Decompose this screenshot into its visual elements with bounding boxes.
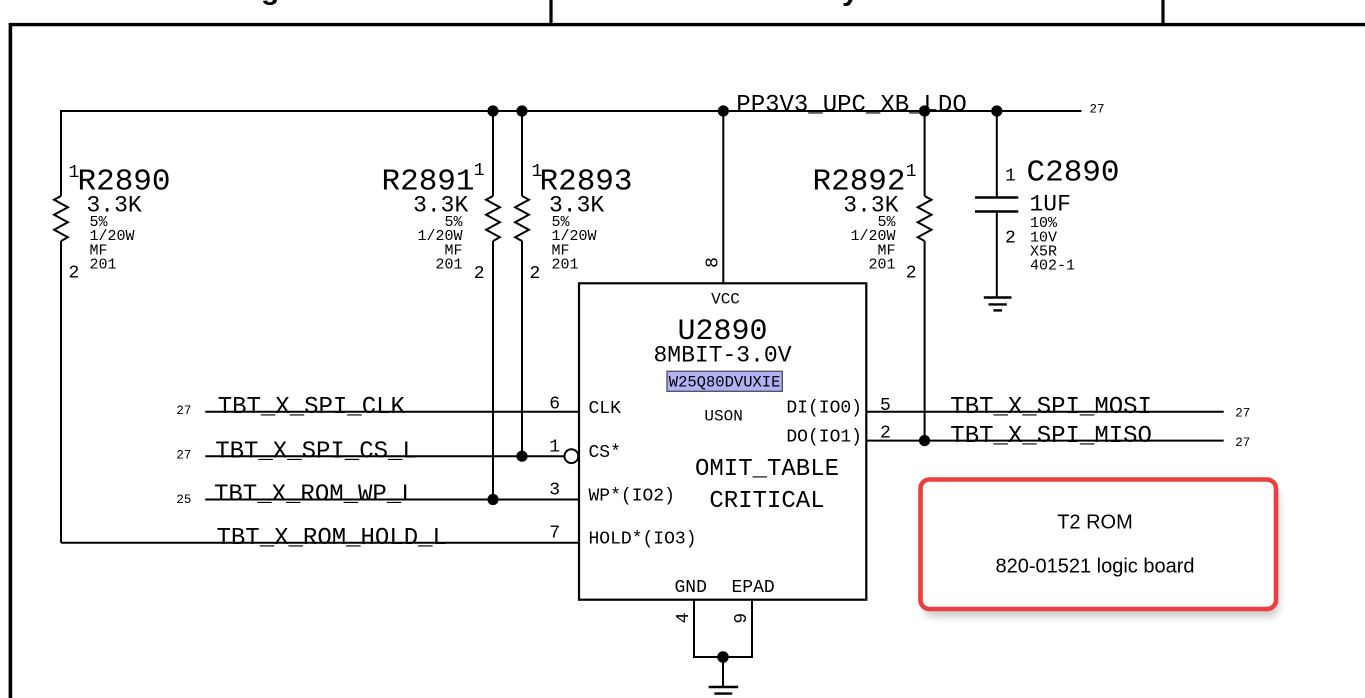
svg-text:CS*: CS*: [589, 443, 621, 463]
svg-text:HOLD*(IO3): HOLD*(IO3): [589, 530, 697, 550]
svg-text:1: 1: [549, 438, 560, 458]
node junction dot R2892/MISO: [919, 435, 930, 446]
wire to ground: [722, 657, 724, 686]
svg-text:TBT_X_SPI_MISO: TBT_X_SPI_MISO: [950, 423, 1152, 450]
sheet frame left border: [9, 23, 13, 698]
svg-text:CLK: CLK: [589, 399, 622, 419]
svg-text:2: 2: [474, 264, 485, 284]
svg-text:27: 27: [176, 404, 191, 418]
svg-text:7: 7: [549, 524, 560, 544]
wire TBT_X_SPI_MISO: [866, 440, 1223, 442]
svg-text:402-1: 402-1: [1030, 258, 1075, 275]
title block row divider (vertical, top strip left): [549, 0, 552, 25]
ground symbol (C2890): [984, 298, 1012, 311]
inversion bubble on CS* pin: [565, 449, 579, 463]
svg-text:2: 2: [530, 264, 541, 284]
resistor R2891: [381, 110, 499, 500]
node junction dot C2890/rail: [991, 105, 1002, 116]
svg-text:201: 201: [552, 257, 579, 274]
svg-text:y: y: [842, 0, 859, 7]
wire TBT_X_SPI_MOSI: [866, 411, 1223, 413]
sheet frame top border: [9, 23, 1365, 26]
svg-text:W25Q80DVUXIE: W25Q80DVUXIE: [669, 374, 781, 392]
svg-text:2: 2: [1005, 229, 1016, 249]
resistor R2892: [812, 110, 931, 441]
ground symbol (U2890): [709, 687, 739, 694]
svg-text:TBT_X_SPI_CS_L: TBT_X_SPI_CS_L: [215, 438, 417, 465]
svg-text:8MBIT-3.0V: 8MBIT-3.0V: [653, 343, 791, 369]
svg-text:2: 2: [906, 264, 917, 284]
svg-text:201: 201: [435, 257, 462, 274]
svg-text:PP3V3_UPC_XB_LDO: PP3V3_UPC_XB_LDO: [736, 92, 966, 119]
node junction dot R2893/rail: [516, 105, 527, 116]
svg-text:9: 9: [732, 613, 752, 624]
svg-text:5: 5: [880, 396, 891, 416]
annotation red box T2 ROM: [921, 480, 1280, 618]
svg-text:2: 2: [880, 424, 891, 444]
resistor R2890: [54, 110, 170, 543]
wire TBT_X_SPI_CS_L: [205, 455, 564, 457]
node junction dot VCC/rail: [718, 105, 729, 116]
wire GND pin 4: [693, 600, 695, 658]
svg-text:VCC: VCC: [711, 291, 740, 309]
svg-text:1: 1: [1005, 167, 1016, 187]
wire TBT_X_ROM_HOLD_L: [61, 542, 579, 544]
svg-text:8: 8: [703, 257, 723, 268]
svg-text:GND: GND: [675, 578, 707, 598]
wire GND-EPAD tie: [694, 656, 752, 658]
op IC body U2890: [579, 283, 866, 599]
svg-text:C2890: C2890: [1027, 156, 1120, 191]
svg-text:TBT_X_ROM_HOLD_L: TBT_X_ROM_HOLD_L: [217, 525, 447, 552]
resistor R2893: [515, 110, 632, 456]
node junction dot R2893/CS: [516, 451, 527, 462]
svg-text:820-01521 logic board: 820-01521 logic board: [995, 556, 1194, 578]
node junction dot R2892/rail: [919, 105, 930, 116]
svg-text:USON: USON: [704, 407, 742, 425]
svg-text:27: 27: [1235, 436, 1250, 450]
svg-text:OMIT_TABLE: OMIT_TABLE: [695, 456, 839, 483]
svg-text:25: 25: [176, 493, 191, 507]
svg-text:27: 27: [176, 448, 191, 462]
svg-text:DI(IO0): DI(IO0): [786, 399, 862, 419]
node junction dot R2891/rail: [487, 105, 498, 116]
svg-text:3: 3: [549, 481, 560, 501]
svg-text:TBT_X_SPI_MOSI: TBT_X_SPI_MOSI: [950, 394, 1152, 421]
svg-text:EPAD: EPAD: [732, 578, 775, 598]
svg-text:T2 ROM: T2 ROM: [1057, 512, 1133, 534]
svg-text:CRITICAL: CRITICAL: [709, 488, 824, 515]
svg-text:201: 201: [868, 257, 895, 274]
svg-text:DO(IO1): DO(IO1): [786, 428, 862, 448]
svg-text:2: 2: [69, 264, 80, 284]
wire VCC pin 8: [722, 111, 724, 283]
wire PP3V3_UPC_XB_LDO rail: [61, 110, 1082, 112]
svg-text:1UF: 1UF: [1030, 192, 1071, 218]
node junction dot GND tie: [717, 651, 729, 663]
wire TBT_X_SPI_CLK: [205, 411, 579, 413]
svg-text:4: 4: [674, 612, 694, 623]
part number highlight W25Q80DVUXIE: [667, 371, 782, 391]
svg-text:g: g: [261, 0, 279, 6]
title block row divider (vertical, top strip right): [1161, 0, 1164, 25]
wire TBT_X_ROM_WP_L: [205, 499, 579, 501]
svg-text:201: 201: [90, 257, 117, 274]
svg-text:WP*(IO2): WP*(IO2): [589, 487, 675, 507]
svg-text:27: 27: [1090, 103, 1105, 117]
svg-text:27: 27: [1235, 407, 1250, 421]
svg-text:TBT_X_SPI_CLK: TBT_X_SPI_CLK: [218, 394, 406, 421]
capacitor C2890: [975, 110, 1120, 298]
svg-text:1: 1: [906, 162, 917, 182]
node junction dot R2891/WP: [487, 494, 498, 505]
svg-text:6: 6: [549, 395, 560, 415]
wire EPAD pin 9: [751, 600, 753, 658]
svg-text:TBT_X_ROM_WP_L: TBT_X_ROM_WP_L: [214, 482, 416, 509]
svg-text:1: 1: [474, 161, 485, 181]
